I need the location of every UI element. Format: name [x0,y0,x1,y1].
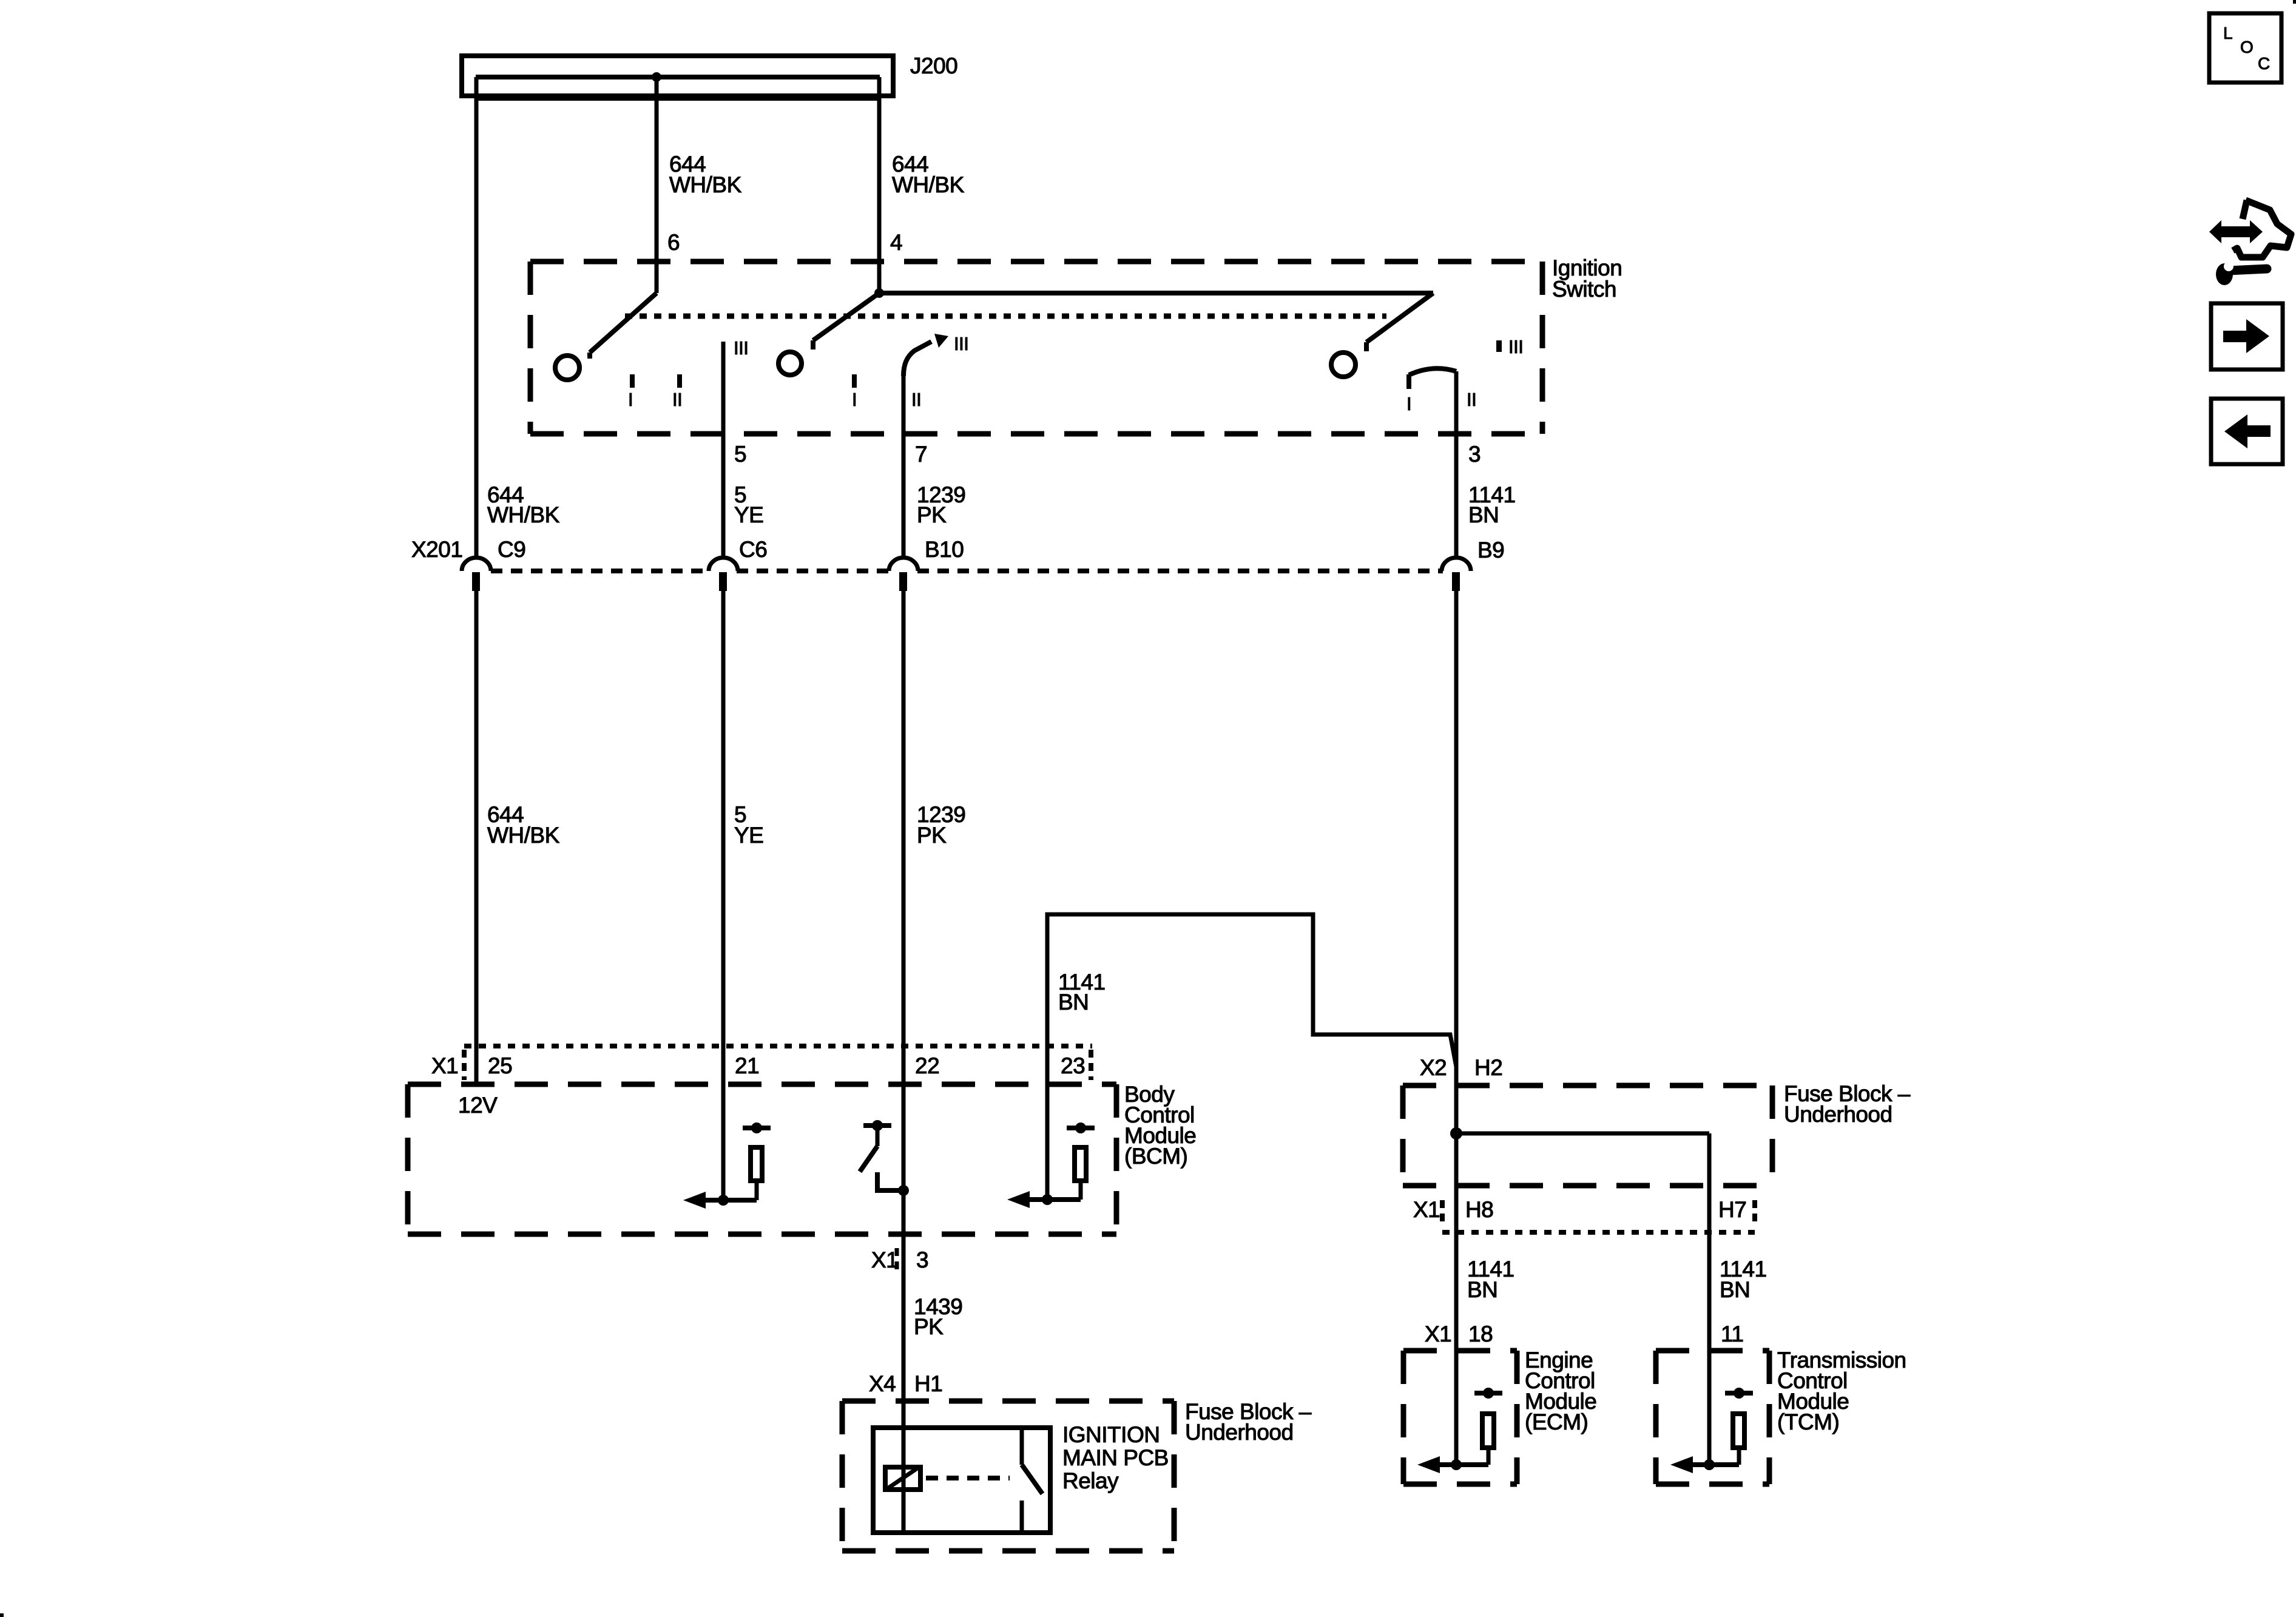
svg-text:YE: YE [734,502,763,527]
svg-text:I: I [1406,393,1411,414]
svg-text:PK: PK [914,1314,944,1339]
svg-text:J200: J200 [910,53,957,78]
svg-text:X4: X4 [869,1371,896,1396]
svg-text:II: II [672,389,682,410]
svg-text:III: III [1508,336,1523,357]
svg-text:H7: H7 [1718,1197,1746,1222]
svg-text:C9: C9 [498,537,525,562]
svg-text:PK: PK [917,502,947,527]
svg-text:6: 6 [667,230,680,255]
svg-text:II: II [911,389,921,410]
svg-text:H2: H2 [1474,1055,1502,1080]
svg-text:21: 21 [735,1053,759,1078]
svg-text:WH/BK: WH/BK [487,823,560,848]
svg-text:3: 3 [916,1247,928,1272]
svg-text:YE: YE [734,823,763,848]
svg-text:(BCM): (BCM) [1124,1144,1187,1169]
svg-text:X1: X1 [871,1247,898,1272]
svg-text:I: I [628,389,633,410]
svg-text:C6: C6 [739,537,767,562]
svg-text:III: III [954,333,968,354]
svg-text:BN: BN [1720,1277,1750,1302]
svg-text:Relay: Relay [1062,1468,1119,1493]
svg-text:MAIN PCB: MAIN PCB [1062,1445,1169,1470]
svg-text:5: 5 [734,442,746,467]
svg-text:III: III [734,337,748,359]
svg-text:II: II [1467,389,1476,410]
svg-text:23: 23 [1061,1053,1085,1078]
svg-text:4: 4 [890,230,902,255]
svg-text:(TCM): (TCM) [1777,1409,1839,1434]
svg-text:WH/BK: WH/BK [487,502,560,527]
svg-text:7: 7 [915,442,927,467]
svg-text:25: 25 [488,1053,512,1078]
svg-text:H8: H8 [1465,1197,1493,1222]
svg-text:PK: PK [917,823,947,848]
svg-text:18: 18 [1468,1322,1493,1346]
svg-text:12V: 12V [458,1093,498,1118]
svg-text:X1: X1 [431,1053,458,1078]
svg-text:(ECM): (ECM) [1525,1409,1588,1434]
svg-text:BN: BN [1058,990,1089,1014]
svg-text:22: 22 [915,1053,939,1078]
svg-text:B10: B10 [925,537,964,562]
svg-text:Underhood: Underhood [1185,1420,1294,1445]
svg-text:WH/BK: WH/BK [892,172,965,197]
svg-text:3: 3 [1468,442,1481,467]
svg-text:H1: H1 [914,1371,942,1396]
svg-text:X201: X201 [411,537,462,562]
svg-text:C: C [2258,54,2270,73]
svg-text:O: O [2240,38,2253,56]
svg-text:IGNITION: IGNITION [1062,1422,1160,1447]
svg-text:BN: BN [1468,502,1499,527]
svg-text:Switch: Switch [1552,277,1616,302]
svg-text:BN: BN [1467,1277,1497,1302]
svg-text:11: 11 [1721,1322,1743,1346]
svg-text:WH/BK: WH/BK [669,172,742,197]
svg-text:I: I [852,389,857,410]
svg-text:X1: X1 [1413,1197,1440,1222]
svg-text:B9: B9 [1477,538,1504,562]
svg-text:L: L [2223,24,2232,42]
svg-text:X2: X2 [1420,1055,1447,1080]
svg-text:X1: X1 [1425,1322,1451,1346]
svg-text:Underhood: Underhood [1784,1102,1893,1127]
